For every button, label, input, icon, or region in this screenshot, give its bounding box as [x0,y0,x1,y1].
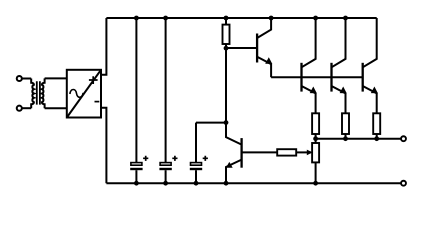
node: C1 bottom rail junction [134,181,139,186]
resistor R3 [342,113,349,138]
wire: secondary top to bridge [45,77,67,79]
capacitor C2 [159,18,177,183]
node: Q3 collector at top rail [343,16,348,21]
node: C3 branch junction [224,120,229,125]
wire: R1 junction down to Q5 collector column [225,48,227,122]
transistor Q1 [226,18,272,77]
node: R1 bottom / Q1 base junction [224,46,229,51]
wire: bottom rail [106,182,401,184]
transistor Q2 [302,18,317,113]
wire: top supply rail [106,17,376,19]
node: R3 at output rail [343,136,348,141]
node: Q2 collector at top rail [313,16,318,21]
input terminal J2 [17,106,22,111]
bridge rectifier + label [89,76,98,84]
node: C2 bottom rail junction [163,181,168,186]
output terminal J3 [401,136,406,141]
bridge rectifier BR1 [67,70,101,118]
node: R1 top rail junction [224,16,229,21]
wire: Q5 base to R5 [242,151,278,153]
potentiometer VR1 [312,139,319,184]
bridge rectifier - label [95,101,100,103]
transistor Q3 [332,18,347,113]
node: C2 top rail junction [163,16,168,21]
resistor R1 [223,18,230,48]
capacitor C1 [130,18,148,183]
node: Q1 collector at top rail [269,16,274,21]
transistor Q4 [363,18,378,113]
node: C3 bottom rail junction [194,181,199,186]
bridge rectifier AC symbol ~ [70,89,83,97]
wire: R5 to potentiometer wiper [296,150,313,156]
node: Q5 emitter at bottom rail [224,181,229,186]
wire: branch from R1 column to C3 [196,122,226,124]
node: VR1 bottom rail junction [313,181,318,186]
wire: output rail [316,138,402,140]
wire: J2 to transformer primary [22,107,31,109]
node: C1 top rail junction [134,16,139,21]
input terminal J1 [17,76,22,81]
node: VR1 top / R2 output junction [313,136,318,141]
output terminal J4 [401,181,406,186]
resistor R5 [277,149,296,155]
wire: secondary bottom to bridge [45,107,67,109]
wire: bridge + output to top rail [101,18,106,75]
transformer T1 primary winding [31,79,34,109]
transformer T1 secondary winding [42,78,45,108]
resistor R2 [312,113,319,138]
wire: J1 to transformer primary [22,78,31,80]
node: R4 at output rail [374,136,379,141]
wire: bridge - output to bottom rail [101,108,106,183]
transformer T1 core [37,81,40,104]
capacitor C3 [190,123,208,184]
wire: base bus Q2 Q3 Q4 [271,76,363,78]
resistor R4 [373,113,380,138]
transistor Q5 [226,123,242,184]
